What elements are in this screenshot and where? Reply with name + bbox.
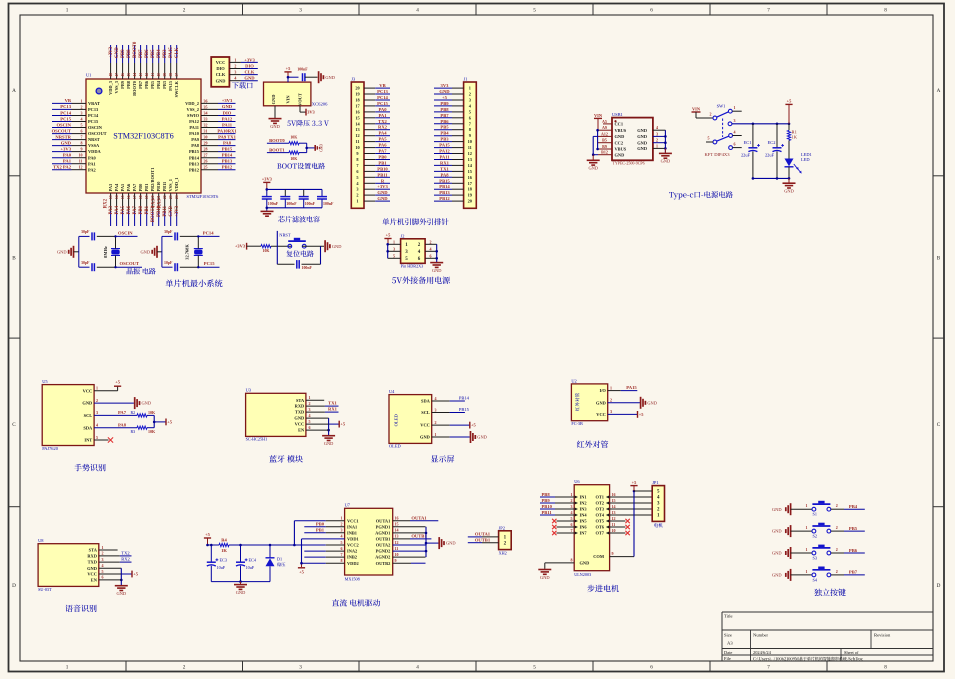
wire SW1 pin1 stub bbox=[732, 110, 742, 112]
svg-text:6: 6 bbox=[734, 142, 736, 147]
svg-text:GND: GND bbox=[320, 144, 324, 152]
U6 pin 3 IN3 bbox=[571, 504, 588, 512]
U1 pin 41 PB5 wire bbox=[150, 45, 155, 89]
label BOOT设置电路 bbox=[277, 163, 281, 168]
svg-text:41: 41 bbox=[151, 73, 155, 77]
svg-text:CLK: CLK bbox=[175, 47, 180, 58]
wire pin1 GND bbox=[432, 436, 470, 438]
svg-text:10: 10 bbox=[468, 139, 472, 144]
svg-text:11: 11 bbox=[79, 159, 83, 164]
svg-text:C: C bbox=[937, 422, 941, 428]
wire GND bus left bbox=[592, 136, 598, 159]
svg-text:2: 2 bbox=[183, 8, 186, 14]
svg-text:GND: GND bbox=[637, 146, 647, 151]
svg-text:6: 6 bbox=[309, 425, 311, 430]
wire +5 rail bbox=[732, 123, 790, 126]
wire OT5 no-connect bbox=[610, 519, 630, 523]
U8 pin 4 GND bbox=[87, 563, 103, 571]
ground bbox=[783, 183, 796, 193]
svg-text:B5: B5 bbox=[602, 138, 607, 143]
svg-text:8: 8 bbox=[884, 664, 887, 670]
U1 pin 28 PB15 wire bbox=[189, 147, 236, 155]
svg-text:7: 7 bbox=[571, 528, 573, 533]
svg-text:1: 1 bbox=[234, 57, 236, 62]
svg-text:3: 3 bbox=[393, 246, 395, 251]
wire pin14 AGND1 bbox=[393, 532, 426, 534]
J3 pin 7 wire bbox=[356, 163, 390, 168]
power +5 port bbox=[298, 567, 305, 569]
svg-text:3: 3 bbox=[356, 187, 358, 192]
U7 pin 15 PGND1 bbox=[376, 522, 399, 530]
J1 pin 2 wire bbox=[434, 92, 471, 97]
junction bbox=[305, 147, 308, 150]
wire pin10 AGND2 bbox=[393, 556, 426, 558]
svg-text:3: 3 bbox=[469, 98, 471, 103]
svg-text:5: 5 bbox=[309, 419, 311, 424]
J1 pin 17 wire bbox=[434, 181, 473, 186]
svg-text:PB6: PB6 bbox=[144, 80, 149, 89]
svg-text:20: 20 bbox=[355, 86, 359, 91]
svg-text:PB0: PB0 bbox=[378, 155, 387, 160]
ground bbox=[324, 240, 326, 252]
svg-text:10K: 10K bbox=[148, 410, 156, 415]
svg-text:15: 15 bbox=[468, 169, 472, 174]
svg-text:20: 20 bbox=[468, 199, 472, 204]
svg-text:3V3: 3V3 bbox=[307, 110, 315, 115]
wire VBUS bus bbox=[596, 129, 599, 150]
svg-text:+5: +5 bbox=[205, 532, 211, 537]
svg-text:+5: +5 bbox=[286, 66, 292, 71]
svg-text:19: 19 bbox=[145, 195, 149, 199]
wire VIN node bbox=[287, 76, 299, 82]
svg-text:3: 3 bbox=[571, 504, 573, 509]
svg-text:OSCOUT: OSCOUT bbox=[88, 131, 107, 136]
svg-text:TYPEC-2500-9CP6: TYPEC-2500-9CP6 bbox=[612, 160, 644, 165]
J1 pin 9 wire bbox=[434, 133, 471, 138]
svg-text:IN5: IN5 bbox=[580, 519, 588, 524]
U6 pin 16 OT1 bbox=[595, 492, 615, 500]
svg-text:PB13: PB13 bbox=[189, 161, 200, 166]
U6 pin 8 GND bbox=[571, 558, 590, 566]
ground bbox=[470, 431, 472, 443]
U1 pin 40 PB4 wire bbox=[156, 45, 161, 89]
label 5V外接备用电源 bbox=[392, 277, 396, 283]
wire gnd to switch S2 bbox=[791, 530, 812, 532]
U6 pin 2 IN2 bbox=[571, 498, 587, 506]
svg-text:GND: GND bbox=[596, 400, 606, 405]
wire to NRST node bbox=[271, 231, 292, 246]
svg-text:100nF: 100nF bbox=[302, 266, 313, 270]
svg-text:9: 9 bbox=[81, 147, 83, 152]
svg-text:5: 5 bbox=[533, 8, 536, 14]
svg-text:A: A bbox=[12, 88, 16, 94]
svg-text:4: 4 bbox=[734, 130, 736, 135]
svg-text:RXD: RXD bbox=[87, 554, 97, 559]
svg-text:Date: Date bbox=[724, 650, 732, 655]
svg-text:PB7: PB7 bbox=[138, 80, 143, 89]
svg-text:GND: GND bbox=[377, 196, 388, 201]
svg-text:1: 1 bbox=[66, 664, 69, 670]
U1 pin 36 VDD_2 wire bbox=[185, 98, 235, 106]
pushbutton reset bbox=[288, 244, 292, 248]
svg-text:PA3: PA3 bbox=[108, 183, 113, 192]
ground bbox=[587, 160, 600, 170]
svg-text:GND: GND bbox=[57, 250, 67, 255]
svg-text:5: 5 bbox=[81, 123, 83, 128]
U1 pin 26 PB13 wire bbox=[189, 159, 236, 167]
svg-text:PB13: PB13 bbox=[439, 190, 450, 195]
svg-text:PB1: PB1 bbox=[145, 205, 150, 214]
U1 pin 38 PA15 wire bbox=[168, 45, 173, 91]
svg-text:A12: A12 bbox=[601, 131, 608, 136]
power +5 port bbox=[338, 421, 340, 428]
svg-text:Sheet of: Sheet of bbox=[844, 650, 859, 655]
svg-text:100nF: 100nF bbox=[286, 202, 297, 206]
J3 pin 8 wire bbox=[356, 157, 390, 162]
wire to ground bbox=[266, 207, 269, 211]
svg-text:5: 5 bbox=[469, 109, 471, 114]
label 复位电路 bbox=[286, 250, 292, 256]
svg-text:SW1: SW1 bbox=[717, 104, 726, 109]
U1 pin 29 PA8 wire bbox=[191, 141, 235, 149]
J1 pin 16 wire bbox=[434, 175, 473, 180]
J3 pin 1 wire bbox=[356, 199, 390, 204]
ground bbox=[538, 570, 551, 580]
svg-text:EC3: EC3 bbox=[220, 558, 227, 563]
svg-text:+5: +5 bbox=[299, 569, 305, 574]
svg-text:8: 8 bbox=[469, 127, 471, 132]
JP2 pin 2 wire bbox=[468, 541, 507, 546]
J2 pin 5 wire bbox=[388, 253, 409, 262]
wire switch to net bbox=[831, 530, 865, 532]
svg-text:15: 15 bbox=[395, 522, 399, 527]
J3 pin 20 wire bbox=[355, 86, 390, 91]
power 3V3 port bbox=[305, 109, 307, 116]
label Type-c口-电源电路 bbox=[669, 192, 674, 197]
svg-text:2024/6/24: 2024/6/24 bbox=[753, 650, 772, 655]
svg-text:VDD2: VDD2 bbox=[347, 561, 359, 566]
J1 pin 12 wire bbox=[434, 151, 472, 156]
svg-text:3V3: 3V3 bbox=[441, 83, 450, 88]
svg-text:GND: GND bbox=[615, 152, 625, 157]
wire BOOT0 to junction bbox=[299, 143, 307, 152]
wire pin1 to +5 bbox=[94, 386, 118, 391]
svg-text:1: 1 bbox=[81, 98, 83, 103]
svg-text:RX1: RX1 bbox=[440, 160, 450, 165]
svg-text:PA5: PA5 bbox=[120, 183, 125, 192]
svg-text:+3V3: +3V3 bbox=[244, 57, 255, 62]
svg-text:1: 1 bbox=[806, 525, 808, 530]
J1 pin 14 wire bbox=[434, 163, 473, 168]
svg-text:GND: GND bbox=[294, 416, 304, 421]
svg-text:8: 8 bbox=[356, 157, 358, 162]
download port pin 3 CLK wire bbox=[216, 70, 258, 78]
svg-text:2: 2 bbox=[435, 420, 437, 425]
svg-text:2: 2 bbox=[341, 522, 343, 527]
connector J2 body bbox=[401, 233, 426, 268]
svg-text:PB0: PB0 bbox=[139, 205, 144, 214]
svg-text:VBUS: VBUS bbox=[615, 147, 627, 152]
switch SW1 bbox=[704, 104, 735, 158]
svg-text:GND: GND bbox=[270, 124, 280, 129]
svg-text:10: 10 bbox=[612, 528, 616, 533]
svg-text:EC2: EC2 bbox=[768, 140, 776, 145]
svg-text:TX2: TX2 bbox=[121, 551, 129, 556]
wire OT7 no-connect bbox=[610, 531, 630, 535]
J2 pin 3 wire bbox=[388, 246, 409, 255]
svg-text:GND: GND bbox=[772, 573, 782, 578]
svg-text:15: 15 bbox=[355, 115, 359, 120]
svg-text:PAJ7620: PAJ7620 bbox=[42, 446, 59, 451]
ground bbox=[772, 525, 791, 537]
svg-text:+3V3: +3V3 bbox=[175, 205, 180, 217]
svg-text:15: 15 bbox=[121, 195, 125, 199]
ground bbox=[261, 211, 274, 216]
wire pin16 OUTA1 bbox=[393, 520, 439, 522]
svg-text:48: 48 bbox=[109, 73, 113, 77]
svg-text:VSSA: VSSA bbox=[88, 143, 100, 148]
svg-text:32: 32 bbox=[204, 123, 208, 128]
U1 pin 43 PB7 wire bbox=[138, 45, 143, 89]
U6 pin 1 IN1 bbox=[571, 492, 587, 500]
net label PC14 bbox=[198, 230, 219, 236]
svg-text:18: 18 bbox=[139, 195, 143, 199]
wire pin5 VCC2 rail bbox=[294, 544, 344, 546]
svg-text:PA10RX1: PA10RX1 bbox=[217, 128, 237, 133]
svg-text:U8: U8 bbox=[38, 538, 44, 543]
svg-text:14: 14 bbox=[612, 504, 616, 509]
svg-text:AGND1: AGND1 bbox=[375, 530, 390, 535]
svg-text:COM: COM bbox=[593, 554, 605, 559]
J1 pin 3 wire bbox=[434, 98, 471, 103]
svg-text:PB8: PB8 bbox=[542, 492, 551, 497]
svg-text:PB7: PB7 bbox=[440, 113, 449, 118]
svg-text:OT5: OT5 bbox=[595, 519, 604, 524]
svg-text:KFT DIP4X3: KFT DIP4X3 bbox=[704, 152, 730, 157]
USB1 pin A9 VBUS wire bbox=[598, 125, 627, 133]
svg-text:PB10: PB10 bbox=[377, 166, 388, 171]
J1 pin 6 wire bbox=[434, 115, 472, 120]
svg-text:PA8: PA8 bbox=[223, 140, 232, 145]
wire pin3 VCC bbox=[608, 413, 638, 415]
wire pin4 VDD1 to +5 below bbox=[300, 539, 344, 567]
svg-text:4: 4 bbox=[571, 510, 573, 515]
capacitor 100nF bbox=[299, 189, 316, 207]
svg-text:PA1: PA1 bbox=[88, 161, 96, 166]
J1 pin 11 wire bbox=[434, 145, 472, 150]
svg-text:1: 1 bbox=[341, 516, 343, 521]
svg-text:VDDA: VDDA bbox=[88, 149, 102, 154]
J1 pin 1 wire bbox=[434, 86, 471, 91]
label 步进电机 bbox=[587, 585, 594, 592]
J1 pin 10 wire bbox=[434, 139, 472, 144]
svg-text:PA0: PA0 bbox=[378, 107, 387, 112]
svg-text:B9: B9 bbox=[602, 144, 607, 149]
svg-text:9: 9 bbox=[612, 551, 614, 556]
capacitor 30pF bottom bbox=[79, 261, 115, 271]
svg-text:28: 28 bbox=[204, 147, 208, 152]
svg-text:PGND1: PGND1 bbox=[376, 524, 391, 529]
svg-text:INB2: INB2 bbox=[347, 555, 357, 560]
svg-text:26: 26 bbox=[204, 159, 208, 164]
svg-text:4: 4 bbox=[435, 396, 437, 401]
IC U5 PAJ7620 body bbox=[42, 379, 94, 451]
svg-text:A3: A3 bbox=[727, 641, 733, 646]
U1 pin 39 PB3 wire bbox=[162, 45, 167, 89]
svg-text:3: 3 bbox=[734, 118, 736, 123]
U7 pin 6 INA2 bbox=[341, 546, 358, 554]
svg-text:SU-03T: SU-03T bbox=[38, 587, 52, 592]
U1 pin 18 PB0 wire bbox=[138, 183, 143, 226]
svg-text:PB9: PB9 bbox=[542, 498, 551, 503]
svg-text:GND: GND bbox=[637, 134, 647, 139]
svg-text:6: 6 bbox=[650, 8, 653, 14]
U1 pin 37 SWCLK wire bbox=[174, 45, 179, 97]
svg-text:2: 2 bbox=[309, 401, 311, 406]
svg-text:Title: Title bbox=[724, 614, 733, 619]
svg-text:5: 5 bbox=[102, 569, 104, 574]
svg-text:3: 3 bbox=[81, 111, 83, 116]
svg-text:19: 19 bbox=[355, 92, 359, 97]
svg-text:PA0: PA0 bbox=[88, 155, 97, 160]
J1 pin 7 wire bbox=[434, 121, 472, 126]
power +3V3 port bbox=[262, 177, 273, 190]
svg-text:PA11: PA11 bbox=[439, 155, 450, 160]
svg-text:14: 14 bbox=[395, 528, 399, 533]
U1 pin 16 PA6 wire bbox=[126, 183, 131, 226]
svg-text:PA10: PA10 bbox=[189, 131, 200, 136]
svg-text:8: 8 bbox=[884, 8, 887, 14]
ground bbox=[772, 503, 791, 515]
svg-text:GND: GND bbox=[637, 128, 647, 133]
svg-text:7: 7 bbox=[767, 664, 770, 670]
svg-text:Size: Size bbox=[724, 633, 732, 638]
svg-text:PC15: PC15 bbox=[377, 101, 388, 106]
wire pin12 OUTA2 stub bbox=[393, 544, 426, 546]
wire OT6 no-connect bbox=[610, 525, 630, 529]
svg-text:VIN: VIN bbox=[286, 95, 291, 104]
svg-text:1K: 1K bbox=[792, 135, 798, 140]
svg-text:PB10: PB10 bbox=[156, 181, 161, 192]
wire SW1 pin6 stub bbox=[733, 147, 742, 149]
svg-text:BOOT0: BOOT0 bbox=[133, 41, 138, 58]
U1 pin 47 VSS_3 wire bbox=[114, 45, 119, 93]
svg-text:GND: GND bbox=[661, 159, 671, 164]
svg-text:4: 4 bbox=[656, 125, 658, 130]
svg-text:RX1: RX1 bbox=[328, 407, 338, 412]
wire right gnd bus bbox=[664, 130, 667, 153]
svg-text:30pF: 30pF bbox=[81, 230, 90, 234]
svg-text:NRST: NRST bbox=[88, 137, 100, 142]
svg-text:VBAT: VBAT bbox=[88, 101, 100, 106]
svg-text:R3: R3 bbox=[130, 429, 135, 434]
svg-text:PA7: PA7 bbox=[132, 183, 137, 192]
svg-text:D: D bbox=[12, 583, 16, 589]
svg-text:PB4: PB4 bbox=[156, 80, 161, 89]
svg-text:PB2/BOOT1: PB2/BOOT1 bbox=[150, 168, 155, 192]
svg-text:AGND2: AGND2 bbox=[375, 555, 390, 560]
U4 pin 3 SCL bbox=[421, 407, 436, 415]
U1 pin 3 PC14 wire bbox=[52, 111, 99, 119]
svg-text:ULN2003: ULN2003 bbox=[574, 572, 591, 577]
wire pin1 VCC1 to +5 rail bbox=[293, 521, 345, 547]
svg-text:12: 12 bbox=[612, 516, 616, 521]
svg-text:10uF: 10uF bbox=[246, 565, 255, 570]
capacitor 30pF top bbox=[162, 230, 198, 240]
svg-text:PC15: PC15 bbox=[204, 261, 215, 266]
svg-text:22uF: 22uF bbox=[741, 153, 751, 158]
U1 pin 31 PA10 wire bbox=[189, 129, 235, 137]
wire rail to U7 bbox=[229, 544, 294, 547]
svg-text:CLK: CLK bbox=[216, 72, 226, 77]
download port pin 2 DIO wire bbox=[216, 64, 257, 72]
svg-text:VOUT: VOUT bbox=[298, 93, 303, 106]
svg-text:+5: +5 bbox=[787, 99, 793, 104]
svg-text:100nF: 100nF bbox=[268, 202, 279, 206]
U7 pin 1 VCC1 bbox=[341, 516, 359, 524]
svg-text:31: 31 bbox=[204, 129, 208, 134]
svg-text:38: 38 bbox=[169, 73, 173, 77]
svg-text:4: 4 bbox=[234, 76, 236, 81]
svg-text:U6: U6 bbox=[574, 479, 580, 484]
svg-text:IN2: IN2 bbox=[580, 501, 587, 506]
svg-text:PA7: PA7 bbox=[118, 410, 127, 415]
svg-text:PB9: PB9 bbox=[440, 101, 449, 106]
svg-text:IN4: IN4 bbox=[580, 513, 588, 518]
svg-text:PC13: PC13 bbox=[377, 89, 388, 94]
svg-text:15: 15 bbox=[612, 498, 616, 503]
svg-text:2: 2 bbox=[183, 664, 186, 670]
JP2 pin 1 wire bbox=[468, 536, 507, 541]
svg-text:4: 4 bbox=[341, 534, 343, 539]
capacitor 100nF bbox=[297, 68, 317, 82]
svg-text:XC6206: XC6206 bbox=[312, 101, 328, 106]
USB1 pin B12 GND wire bbox=[598, 150, 624, 158]
svg-text:PB6: PB6 bbox=[440, 119, 449, 124]
svg-text:GND: GND bbox=[446, 541, 456, 546]
svg-text:PA3: PA3 bbox=[109, 205, 114, 214]
ground bbox=[115, 586, 128, 596]
wire to gnd bbox=[302, 245, 324, 247]
wire pin3 SCL bbox=[432, 412, 465, 414]
switch S4 pushbutton bbox=[806, 567, 838, 583]
wire +5 rail bbox=[206, 544, 219, 547]
svg-text:PC14: PC14 bbox=[60, 110, 71, 115]
svg-text:PB7: PB7 bbox=[849, 570, 858, 575]
wire to ground bbox=[307, 147, 315, 149]
svg-text:J2: J2 bbox=[401, 233, 405, 238]
capacitor EC2 22uF bbox=[765, 124, 784, 179]
svg-text:PC13: PC13 bbox=[60, 104, 71, 109]
svg-text:9: 9 bbox=[469, 133, 471, 138]
svg-text:IN3: IN3 bbox=[580, 507, 588, 512]
crystal Y? 32.768K bbox=[185, 235, 203, 268]
svg-text:+5: +5 bbox=[442, 95, 448, 100]
svg-text:SC-HC25H1: SC-HC25H1 bbox=[246, 437, 268, 442]
svg-text:10: 10 bbox=[395, 552, 399, 557]
wire bottom rail bbox=[211, 580, 270, 584]
label 单片机引脚外引排针 bbox=[382, 218, 389, 225]
svg-text:GND: GND bbox=[140, 250, 150, 255]
svg-text:10pF: 10pF bbox=[164, 261, 173, 265]
svg-text:10K: 10K bbox=[290, 157, 297, 161]
USB1 pin B5 CC2 wire bbox=[598, 138, 623, 146]
capacitor 10pF bottom bbox=[162, 261, 198, 271]
U2 pin 2 GND bbox=[596, 398, 612, 406]
svg-text:4: 4 bbox=[416, 8, 419, 14]
svg-text:+3V3: +3V3 bbox=[109, 46, 114, 58]
U8 pin 5 VCC bbox=[87, 569, 103, 577]
